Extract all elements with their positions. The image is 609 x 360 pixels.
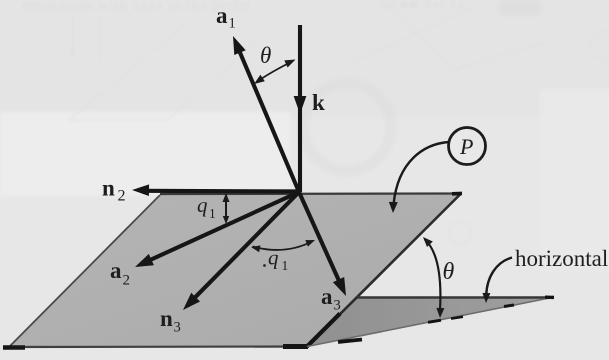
svg-text:a: a [216,3,228,28]
svg-text:n: n [102,176,115,201]
svg-text:a: a [321,284,333,309]
svg-text:1: 1 [282,258,289,273]
svg-text:θ: θ [260,43,271,68]
svg-text:P: P [459,134,473,159]
svg-text:2: 2 [123,273,131,289]
svg-text:n: n [160,306,173,331]
svg-text:k: k [312,90,325,115]
svg-text:horizontal: horizontal [515,246,608,271]
svg-text:1: 1 [209,206,216,221]
svg-text:q: q [197,193,208,217]
svg-text:2: 2 [118,188,126,205]
svg-text:1: 1 [229,16,236,32]
svg-text:rl tr: rl tr [400,0,420,11]
svg-text:3: 3 [334,298,341,314]
svg-text:3: 3 [174,320,181,336]
svg-text:nd co der ra: nd co der ra [380,0,466,11]
svg-text:q: q [268,246,279,270]
svg-text:θ: θ [443,259,455,285]
svg-text:a: a [110,258,122,283]
